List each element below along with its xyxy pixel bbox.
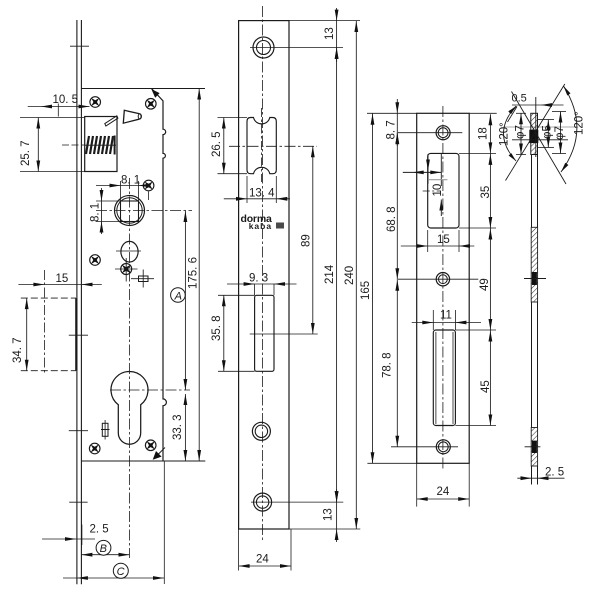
- dimension C case depth line: [63, 577, 164, 579]
- dimension phi5: [547, 120, 549, 148]
- latch slide bar: [105, 116, 118, 126]
- oval centerline tick: [116, 250, 141, 252]
- leader arrow to bottom corner: [155, 448, 165, 458]
- strip tick 2: [69, 334, 88, 336]
- dimension phi7 right: [560, 112, 562, 154]
- svg-text:15: 15: [56, 273, 69, 285]
- screw with star below oval: [121, 264, 132, 275]
- follower hub outer circle: [115, 196, 145, 226]
- lock case bottom edge with dimension extension: [81, 460, 205, 462]
- latch cutout vertical centerline: [261, 108, 263, 182]
- faceplate vertical centerline: [262, 6, 264, 540]
- strike vertical centerline: [442, 106, 444, 470]
- svg-text:φ5: φ5: [542, 125, 554, 139]
- svg-text:78. 8: 78. 8: [382, 352, 394, 378]
- hub horizontal centerline: [96, 210, 192, 212]
- fixing clip detail: [102, 423, 108, 436]
- faceplate top edge extension: [289, 20, 360, 22]
- dimension 49: [489, 228, 491, 330]
- strike top hole centerline: [398, 132, 462, 134]
- circled B label: [96, 540, 111, 555]
- bottom hole centerline: [251, 501, 343, 503]
- deadbolt axis extension line: [250, 333, 318, 335]
- dimension B backset line: [81, 554, 129, 556]
- bottom fixing hole inner: [256, 496, 268, 508]
- svg-text:33. 3: 33. 3: [172, 414, 184, 440]
- left 120 degree arc: [504, 106, 517, 161]
- svg-text:13: 13: [324, 27, 336, 40]
- section strip bottom segment: [531, 466, 533, 485]
- screw mid-left: [87, 252, 103, 268]
- dimension 13.4: [246, 176, 248, 203]
- hatched section at bottom hole: [531, 428, 537, 467]
- dimension 35: [489, 153, 491, 228]
- svg-text:35: 35: [480, 186, 492, 199]
- dimension 15: [427, 230, 429, 252]
- strike bottom hole centerline: [391, 446, 458, 448]
- dimension 34.7: [26, 298, 28, 371]
- dimension 26.5: [218, 117, 248, 119]
- strip tick 3: [69, 430, 88, 432]
- dashed centerline of 34.7 box: [43, 270, 45, 373]
- svg-text:165: 165: [360, 281, 372, 300]
- dimension phi7 left: [520, 113, 522, 154]
- middle fixing hole outer: [252, 422, 270, 440]
- dimension 214: [336, 48, 338, 503]
- strike bottom hole inner: [438, 442, 448, 452]
- top hole centerline: [250, 47, 343, 49]
- dimension 45: [489, 330, 491, 426]
- dimension 13 top: [336, 8, 338, 62]
- spring coil: [86, 136, 113, 154]
- dimension 33.3: [184, 394, 186, 461]
- latch bolt wedge: [123, 110, 141, 123]
- screw top-right: [143, 96, 159, 112]
- strike top edge extensions: [367, 112, 417, 114]
- small adjuster rect with cross: [139, 276, 149, 282]
- svg-text:B: B: [100, 543, 107, 555]
- svg-text:240: 240: [344, 266, 356, 285]
- hole blob in section: [532, 272, 537, 285]
- 34.7 box hidden outline: [21, 297, 76, 299]
- top screw hole inner: [257, 41, 271, 55]
- svg-text:24: 24: [256, 554, 269, 566]
- faceplate bottom edge extension: [289, 528, 360, 530]
- svg-text:45: 45: [480, 380, 492, 393]
- dimension 25.7: [20, 117, 85, 119]
- svg-text:175. 6: 175. 6: [188, 257, 200, 289]
- strike bottom hole outer: [436, 440, 450, 454]
- strike middle hole inner: [439, 275, 448, 284]
- dimension 8.7: [396, 99, 398, 146]
- right 120 degree arc: [561, 86, 577, 172]
- cylinder horizontal centerline: [110, 389, 190, 391]
- section strip middle segment: [531, 302, 533, 428]
- right chain extensions: [459, 152, 496, 154]
- faceplate strip right edge: [80, 20, 82, 584]
- dimension 13 bottom: [336, 489, 338, 542]
- latch center dash line: [423, 190, 441, 192]
- hub square edge extensions left: [96, 200, 121, 202]
- dimension 240: [355, 21, 357, 529]
- dimension 89: [312, 146, 314, 334]
- dimension 78.8: [396, 279, 398, 447]
- strip tick 4: [69, 501, 87, 503]
- countersink detail: gray hole centerline: [503, 126, 578, 128]
- dimension 35.8: [218, 294, 255, 296]
- hub square side extensions up: [120, 181, 122, 201]
- svg-text:8. 1: 8. 1: [121, 175, 140, 187]
- bottom fixing hole outer: [254, 493, 272, 511]
- svg-text:25. 7: 25. 7: [20, 140, 32, 166]
- strike middle hole centerline: [398, 278, 478, 280]
- svg-text:8. 1: 8. 1: [90, 203, 102, 222]
- svg-text:15: 15: [437, 234, 450, 246]
- svg-text:68. 8: 68. 8: [386, 206, 398, 232]
- detail hole blob: [529, 130, 538, 143]
- section strip upper segment: [531, 155, 533, 228]
- strike plate outline: [417, 113, 470, 463]
- dimension 165: [372, 113, 374, 463]
- svg-text:10. 5: 10. 5: [53, 94, 79, 106]
- svg-text:2. 5: 2. 5: [90, 524, 109, 536]
- dimension 68.8: [396, 133, 398, 280]
- svg-text:0.5: 0.5: [512, 93, 527, 105]
- euro cylinder profile: [111, 371, 148, 444]
- strike latch opening: [428, 153, 459, 228]
- svg-text:214: 214: [324, 264, 336, 284]
- 34.7 box thick right face: [75, 298, 77, 371]
- latch axis centerline: [229, 145, 317, 147]
- svg-text:10: 10: [432, 184, 444, 197]
- latch bolt nose ring: [138, 114, 141, 119]
- detail tick line through hole: [512, 139, 568, 141]
- circled A label: [171, 288, 186, 303]
- deadbolt cutout: [255, 295, 274, 371]
- strip tick 1: [70, 45, 89, 47]
- svg-text:9. 3: 9. 3: [249, 273, 268, 285]
- dimension A (hub to cylinder) line: [184, 211, 186, 391]
- svg-text:11: 11: [440, 310, 452, 322]
- strike deadbolt opening: [433, 330, 455, 426]
- circled C label: [113, 563, 128, 578]
- follower hub inner circle: [117, 198, 142, 223]
- dimension 11: [432, 310, 434, 330]
- svg-text:24: 24: [437, 486, 450, 498]
- svg-text:34. 7: 34. 7: [12, 337, 24, 363]
- spring housing box: [85, 117, 117, 172]
- svg-text:89: 89: [301, 234, 313, 247]
- screw bottom-left: [87, 440, 103, 456]
- svg-text:120°: 120°: [574, 111, 586, 135]
- dimension 175.6: [198, 89, 200, 462]
- dimension 8.1 vertical: [101, 188, 103, 234]
- svg-text:φ7: φ7: [554, 126, 566, 140]
- countersink X diagonal 1: [506, 84, 565, 181]
- lip gray edge: [429, 179, 447, 181]
- deadbolt opening inner lines: [435, 332, 437, 424]
- svg-text:35. 8: 35. 8: [211, 315, 223, 341]
- detail vertical centerline: [535, 97, 537, 157]
- spring axis centerline: [62, 144, 85, 146]
- dimension 9.3: [254, 284, 256, 295]
- faceplate strip left edge: [76, 20, 78, 584]
- svg-text:49: 49: [479, 278, 491, 291]
- svg-text:13: 13: [323, 508, 335, 521]
- strike top hole inner: [438, 128, 448, 138]
- svg-text:18: 18: [478, 127, 490, 140]
- middle fixing hole inner: [255, 425, 267, 437]
- countersink X diagonal 2: [512, 92, 567, 185]
- hole blob in bottom section: [532, 441, 537, 453]
- oval follower part: [121, 241, 138, 262]
- svg-text:φ7: φ7: [515, 125, 527, 139]
- lock case right edge with chamfer and notches: [152, 89, 167, 462]
- svg-text:26. 5: 26. 5: [211, 131, 223, 157]
- latch cutout: [247, 118, 276, 174]
- lip fold line lower with up arrow: [439, 200, 443, 211]
- dimension 24 strike: [416, 463, 418, 506]
- svg-text:C: C: [117, 566, 125, 578]
- lip dimension down arrow on opening edge: [427, 154, 429, 184]
- dimension 24 bottom of faceplate: [238, 529, 240, 571]
- main vertical centerline: [129, 178, 131, 558]
- lock case top edge with dimension extension: [81, 88, 205, 90]
- lip fold line: [440, 154, 442, 186]
- faceplate outline: [239, 21, 289, 529]
- lip leader arrow: [403, 171, 442, 173]
- svg-text:13. 4: 13. 4: [249, 188, 275, 200]
- strike middle hole outer: [436, 273, 449, 286]
- top screw hole outer: [253, 37, 274, 58]
- screw top-left: [87, 94, 103, 110]
- svg-text:A: A: [174, 290, 182, 302]
- dimension 8.1 horizontal: [96, 185, 151, 187]
- detail hatched bar: [531, 113, 538, 154]
- screw bottom-right: [143, 437, 159, 453]
- strike top hole outer: [436, 126, 450, 140]
- hatched section at middle hole: [531, 227, 537, 302]
- svg-text:8. 7: 8. 7: [386, 120, 398, 139]
- strike bottom edge extension: [367, 462, 416, 464]
- case right edge extension for C: [163, 461, 165, 584]
- spring end bar: [114, 136, 116, 155]
- svg-text:kaba: kaba: [249, 221, 272, 231]
- dimension 18: [489, 114, 491, 153]
- hub square spindle hole: [121, 201, 139, 222]
- screw right of hub: [141, 177, 157, 193]
